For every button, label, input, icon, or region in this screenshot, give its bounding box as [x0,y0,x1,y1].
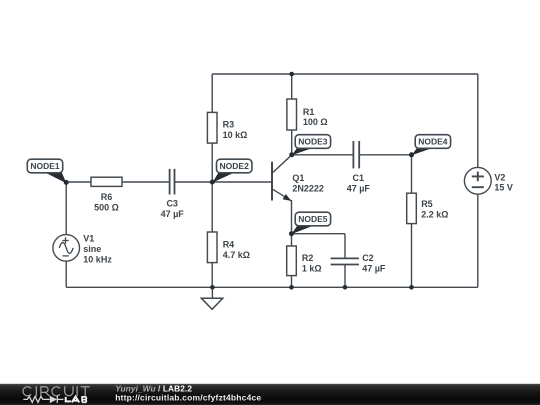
svg-text:NODE2: NODE2 [220,161,250,171]
svg-text:NODE4: NODE4 [418,137,448,147]
svg-text:R1: R1 [303,107,315,117]
svg-text:R2: R2 [302,253,314,263]
svg-text:47 µF: 47 µF [347,184,371,194]
svg-text:10 kΩ: 10 kΩ [223,130,248,140]
svg-text:47 µF: 47 µF [362,263,386,273]
svg-text:C1: C1 [353,173,365,183]
svg-text:R5: R5 [421,199,433,209]
svg-text:1 kΩ: 1 kΩ [302,263,322,273]
svg-text:4.7 kΩ: 4.7 kΩ [223,250,250,260]
svg-text:http://circuitlab.com/cfyfzt4b: http://circuitlab.com/cfyfzt4bhc4ce [115,393,261,403]
svg-text:NODE3: NODE3 [298,137,328,147]
svg-text:Q1: Q1 [292,173,304,183]
svg-text:V2: V2 [494,172,505,182]
svg-text:R3: R3 [223,120,235,130]
svg-text:100 Ω: 100 Ω [303,117,328,127]
svg-text:500 Ω: 500 Ω [94,202,119,212]
svg-text:V1: V1 [83,234,94,244]
svg-text:2.2 kΩ: 2.2 kΩ [421,210,448,220]
svg-text:10 kHz: 10 kHz [83,255,112,265]
svg-text:R6: R6 [101,192,113,202]
svg-text:NODE5: NODE5 [298,214,328,224]
svg-text:C2: C2 [362,253,374,263]
svg-text:C3: C3 [166,199,178,209]
svg-text:NODE1: NODE1 [30,161,60,171]
svg-text:2N2222: 2N2222 [292,184,324,194]
svg-text:R4: R4 [223,240,235,250]
svg-text:15 V: 15 V [494,183,513,193]
svg-text:47 µF: 47 µF [161,209,185,219]
svg-text:sine: sine [83,244,101,254]
